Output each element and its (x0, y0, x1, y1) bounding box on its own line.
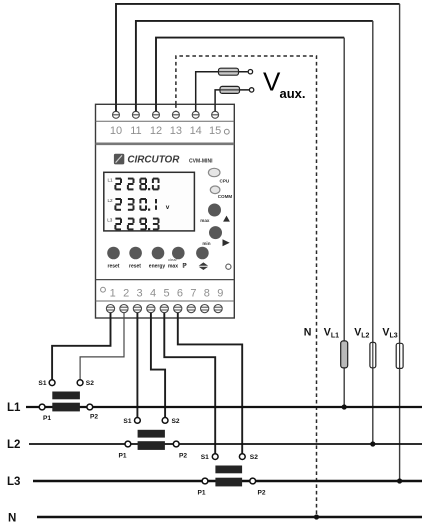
svg-text:v: v (166, 204, 170, 211)
svg-text:P2: P2 (257, 490, 265, 497)
svg-text:aux.: aux. (280, 86, 306, 101)
svg-text:13: 13 (170, 125, 182, 137)
svg-text:P1: P1 (43, 415, 51, 422)
svg-text:S1: S1 (201, 454, 209, 461)
svg-text:max: max (200, 218, 210, 223)
svg-text:P2: P2 (179, 453, 187, 460)
svg-text:L2: L2 (108, 198, 114, 203)
svg-text:max: max (168, 264, 178, 270)
svg-text:L1: L1 (108, 177, 114, 182)
svg-text:7: 7 (190, 288, 196, 300)
svg-text:CPU: CPU (220, 179, 230, 184)
svg-text:clear: clear (168, 257, 177, 262)
svg-text:L3: L3 (107, 217, 113, 222)
svg-text:11: 11 (130, 125, 141, 137)
svg-text:VL3: VL3 (382, 327, 397, 340)
svg-text:5: 5 (163, 288, 169, 300)
svg-text:energy: energy (149, 264, 166, 270)
svg-text:8: 8 (204, 288, 210, 300)
svg-text:1: 1 (110, 288, 116, 300)
svg-text:3: 3 (137, 288, 143, 300)
svg-text:VL2: VL2 (354, 327, 369, 340)
svg-text:CVM-MINI: CVM-MINI (189, 158, 213, 164)
svg-text:10: 10 (110, 125, 122, 137)
svg-text:P1: P1 (118, 453, 126, 460)
svg-text:S2: S2 (250, 454, 258, 461)
svg-text:N: N (8, 512, 16, 524)
svg-text:reset: reset (108, 264, 120, 270)
svg-text:P2: P2 (90, 413, 98, 420)
svg-text:S2: S2 (86, 380, 94, 387)
svg-text:L1: L1 (7, 402, 21, 414)
svg-text:N: N (304, 327, 312, 339)
svg-text:S1: S1 (123, 418, 131, 425)
svg-text:S2: S2 (172, 418, 180, 425)
svg-text:S1: S1 (38, 380, 46, 387)
svg-text:L3: L3 (7, 476, 20, 488)
svg-text:min: min (202, 241, 210, 246)
svg-text:9: 9 (217, 288, 223, 300)
svg-text:15: 15 (209, 125, 221, 137)
svg-text:V: V (263, 67, 281, 97)
svg-text:P1: P1 (197, 490, 205, 497)
svg-text:12: 12 (150, 125, 162, 137)
svg-text:COMM: COMM (218, 194, 233, 199)
svg-text:L2: L2 (7, 439, 20, 451)
svg-text:CIRCUTOR: CIRCUTOR (127, 154, 180, 165)
svg-text:6: 6 (177, 288, 183, 300)
svg-text:reset: reset (129, 264, 141, 270)
svg-text:VL1: VL1 (324, 327, 339, 340)
svg-text:4: 4 (150, 288, 156, 300)
svg-text:2: 2 (123, 288, 129, 300)
svg-text:14: 14 (190, 125, 202, 137)
